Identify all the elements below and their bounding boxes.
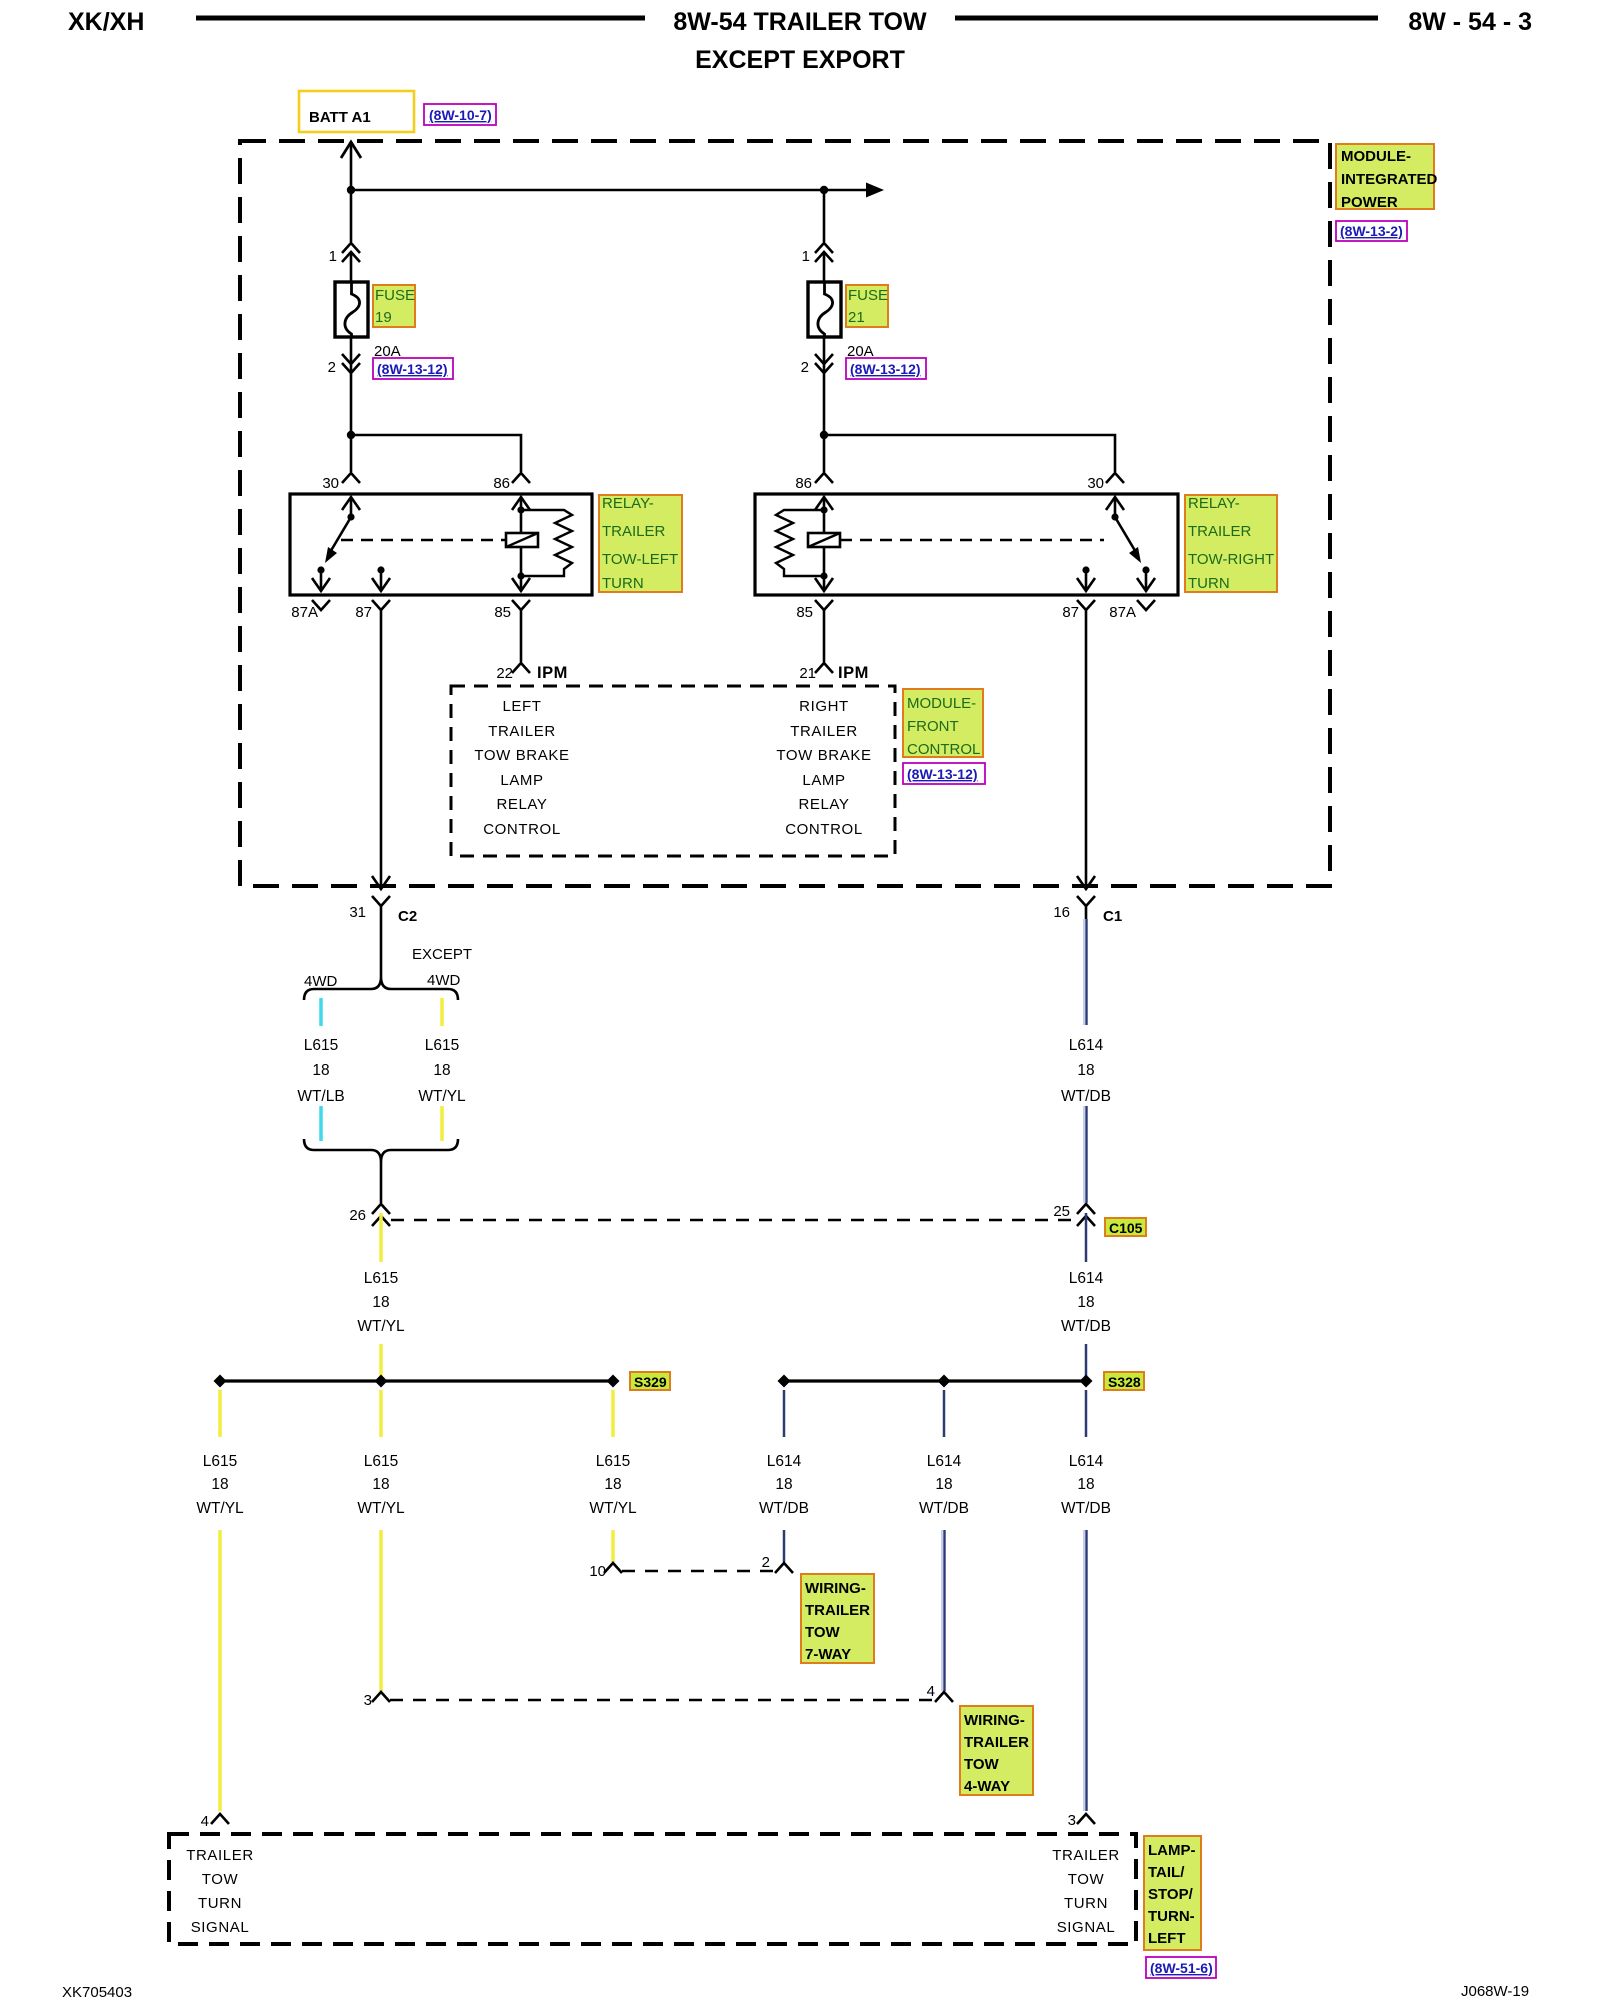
connector 7-way pin 2	[762, 1554, 793, 1573]
relay K1 coil	[506, 533, 538, 547]
svg-text:L615: L615	[304, 1037, 338, 1054]
svg-text:MODULE-: MODULE-	[1341, 148, 1411, 165]
svg-text:BATT A1: BATT A1	[309, 109, 371, 126]
connector 4-way pin 3	[364, 1692, 390, 1709]
svg-text:SIGNAL: SIGNAL	[191, 1919, 250, 1936]
S328 branch stub left	[783, 1390, 786, 1437]
connector pin 2 of fuse 21	[801, 337, 833, 376]
svg-text:LAMP: LAMP	[802, 772, 845, 789]
connector pin 2 of fuse 19	[328, 337, 360, 376]
svg-text:XK705403: XK705403	[62, 1984, 132, 2000]
connector 7-way pin 10	[589, 1563, 622, 1580]
svg-text:19: 19	[375, 309, 392, 326]
svg-text:WT/YL: WT/YL	[589, 1500, 637, 1517]
relay K2 pin 87A stub	[1137, 566, 1155, 591]
splice S328 junction right	[1080, 1375, 1093, 1388]
connector tail lamp pin 3	[1068, 1812, 1095, 1829]
link (8W-10-7)	[424, 104, 496, 125]
relay K1 switch contact arm	[325, 517, 351, 563]
dashed link pin 10 to pin 2	[622, 1570, 777, 1573]
relay K2 box	[755, 494, 1178, 595]
wire label L615 18 WT/YL branch left	[196, 1453, 244, 1517]
svg-text:18: 18	[935, 1476, 952, 1493]
svg-text:L615: L615	[364, 1270, 398, 1287]
svg-text:TRAILER: TRAILER	[964, 1734, 1029, 1751]
svg-text:87A: 87A	[1109, 604, 1136, 621]
label C105	[1105, 1218, 1146, 1236]
wire node C to relay K1 pin 86	[351, 435, 521, 472]
alternative merge brace	[304, 1139, 458, 1162]
svg-text:L614: L614	[767, 1453, 802, 1470]
svg-text:WT/DB: WT/DB	[1061, 1088, 1111, 1105]
connector turn signal pin 4	[201, 1813, 229, 1830]
svg-text:87: 87	[1062, 604, 1079, 621]
trailer tow turn signal text left	[186, 1847, 254, 1936]
svg-text:EXCEPT: EXCEPT	[412, 946, 472, 963]
connector C105 pin 25	[1053, 1203, 1095, 1226]
wire L614 to trailer tow 7-way pin 2	[783, 1530, 786, 1562]
battery feed box BATT A1	[299, 91, 414, 132]
svg-text:4WD: 4WD	[304, 973, 338, 990]
svg-text:FUSE: FUSE	[848, 287, 888, 304]
relay K1 coil feed line pins 86-85	[512, 497, 530, 591]
svg-text:3: 3	[364, 1692, 372, 1709]
wire merge to C105 pin 26	[380, 1162, 383, 1203]
wire L614 to splice S328	[1085, 1344, 1088, 1381]
connector relay K1 pin 86	[493, 473, 530, 492]
svg-text:L614: L614	[1069, 1037, 1104, 1054]
alternative split brace	[304, 977, 458, 1000]
wire label L615 18 WT/YL	[418, 1037, 466, 1105]
label RELAY-TRAILER TOW-RIGHT TURN	[1185, 495, 1277, 592]
connector relay K2 pin 87	[1062, 600, 1095, 621]
wire feed bus to right branch with arrow	[351, 183, 884, 198]
svg-text:C1: C1	[1103, 908, 1122, 925]
splice S329 junction right	[607, 1375, 620, 1388]
connector relay K2 pin 86	[795, 473, 833, 492]
svg-text:XK/XH: XK/XH	[68, 8, 144, 36]
svg-text:L614: L614	[927, 1453, 962, 1470]
wire node D to relay K2 pin 86	[823, 435, 826, 472]
svg-text:(8W-13-2): (8W-13-2)	[1340, 223, 1403, 239]
svg-text:MODULE-: MODULE-	[907, 695, 976, 712]
svg-text:1: 1	[329, 248, 337, 265]
svg-text:TOW-LEFT: TOW-LEFT	[602, 551, 678, 568]
link (8W-51-6)	[1146, 1957, 1216, 1978]
wire L614 WT/DB segment below C1	[1084, 919, 1087, 1025]
connector relay K2 pin 30	[1087, 473, 1124, 492]
wire L615 below C105	[379, 1213, 383, 1262]
svg-text:8W-54 TRAILER TOW: 8W-54 TRAILER TOW	[673, 8, 927, 36]
svg-text:2: 2	[328, 359, 336, 376]
svg-text:STOP/: STOP/	[1148, 1886, 1194, 1903]
wire L615 to turn signal lamp pin 4	[218, 1530, 222, 1811]
connector IPM pin 22	[496, 663, 568, 682]
svg-text:TOW BRAKE: TOW BRAKE	[776, 747, 871, 764]
svg-text:18: 18	[1077, 1062, 1094, 1079]
svg-text:TRAILER: TRAILER	[790, 723, 858, 740]
wire label L614 18 WT/DB branch mid	[919, 1453, 969, 1517]
svg-text:4: 4	[927, 1683, 935, 1700]
svg-text:S329: S329	[634, 1374, 667, 1390]
connector relay K1 pin 30	[322, 473, 360, 492]
svg-text:TRAILER: TRAILER	[488, 723, 556, 740]
wire K2 pin 87 down to C1	[1077, 610, 1095, 889]
connector relay K2 pin 85	[796, 600, 833, 621]
node D junction	[820, 431, 828, 439]
node C junction	[347, 431, 355, 439]
svg-text:WT/YL: WT/YL	[196, 1500, 244, 1517]
svg-text:L615: L615	[596, 1453, 630, 1470]
relay K2 armature dashed link	[840, 539, 1104, 541]
svg-text:RELAY-: RELAY-	[602, 495, 654, 512]
header rule left	[196, 16, 645, 21]
wire label L615 18 WT/YL branch right	[589, 1453, 637, 1517]
label EXCEPT 4WD	[412, 946, 472, 989]
svg-text:22: 22	[496, 665, 513, 682]
svg-text:POWER: POWER	[1341, 194, 1398, 211]
svg-text:TOW BRAKE: TOW BRAKE	[474, 747, 569, 764]
S329 branch stub left	[218, 1390, 222, 1437]
svg-text:RIGHT: RIGHT	[799, 698, 849, 715]
svg-text:FRONT: FRONT	[907, 718, 959, 735]
relay K2 switch contact arm	[1115, 517, 1141, 563]
svg-text:RELAY: RELAY	[496, 796, 547, 813]
relay K1 coil resistor	[521, 510, 572, 576]
svg-text:TAIL/: TAIL/	[1148, 1864, 1185, 1881]
wire node D to relay K2 pin 30	[824, 435, 1115, 472]
S328 branch stub mid	[943, 1390, 946, 1437]
svg-text:TOW: TOW	[202, 1871, 239, 1888]
relay K2 coil resistor	[776, 510, 824, 576]
svg-text:S328: S328	[1108, 1374, 1141, 1390]
S328 branch stub right	[1085, 1390, 1088, 1437]
wire battery A1 into module (arrow up)	[341, 142, 361, 242]
module-integrated power boundary (dashed box)	[240, 141, 1330, 886]
wire L615 WT/YL segment (except 4WD)	[440, 998, 444, 1026]
svg-text:FUSE: FUSE	[375, 287, 415, 304]
svg-text:TOW: TOW	[1068, 1871, 1105, 1888]
svg-text:18: 18	[604, 1476, 621, 1493]
svg-text:LAMP: LAMP	[500, 772, 543, 789]
svg-text:(8W-13-12): (8W-13-12)	[377, 361, 448, 377]
connector C105 pin 26	[349, 1204, 390, 1226]
svg-text:26: 26	[349, 1207, 366, 1224]
label FUSE 21	[846, 285, 888, 327]
wire label L614 18 WT/DB branch left	[759, 1453, 809, 1517]
svg-text:TOW-RIGHT: TOW-RIGHT	[1188, 551, 1274, 568]
splice S328 junction mid	[938, 1375, 951, 1388]
svg-text:85: 85	[494, 604, 511, 621]
svg-text:TOW: TOW	[805, 1624, 841, 1641]
wire K1 pin 87 down to C2	[372, 610, 390, 889]
wire K2 pin 85 to IPM pin 21	[823, 610, 826, 662]
relay K2 switch pivot junction	[1111, 513, 1118, 520]
svg-text:4-WAY: 4-WAY	[964, 1778, 1010, 1795]
svg-text:WT/DB: WT/DB	[919, 1500, 969, 1517]
splice S328 bus	[784, 1379, 1086, 1382]
svg-text:TRAILER: TRAILER	[602, 523, 666, 540]
connector pin 1 of fuse 21	[802, 243, 833, 282]
svg-text:C2: C2	[398, 908, 417, 925]
svg-text:2: 2	[801, 359, 809, 376]
svg-text:(8W-13-12): (8W-13-12)	[907, 766, 978, 782]
svg-text:WT/LB: WT/LB	[297, 1088, 344, 1105]
svg-text:TOW: TOW	[964, 1756, 1000, 1773]
link (8W-13-12) right	[846, 358, 926, 379]
wire L615 to trailer tow 7-way pin 10	[611, 1530, 615, 1562]
wire L615 to splice S329	[379, 1344, 383, 1381]
svg-text:21: 21	[799, 665, 816, 682]
link (8W-13-12) FCM	[903, 763, 985, 784]
svg-text:TRAILER: TRAILER	[805, 1602, 870, 1619]
svg-text:RELAY: RELAY	[798, 796, 849, 813]
svg-text:L615: L615	[425, 1037, 459, 1054]
svg-text:WT/DB: WT/DB	[1061, 1500, 1111, 1517]
svg-text:WT/YL: WT/YL	[357, 1500, 405, 1517]
wire L614 to tail lamp pin 3	[1084, 1530, 1087, 1811]
svg-text:TURN: TURN	[602, 575, 644, 592]
svg-text:IPM: IPM	[838, 664, 869, 682]
trailer tow turn signal text right	[1052, 1847, 1120, 1936]
label S329	[630, 1372, 670, 1390]
svg-text:LEFT: LEFT	[1148, 1930, 1186, 1947]
svg-text:30: 30	[322, 475, 339, 492]
svg-text:L614: L614	[1069, 1453, 1104, 1470]
svg-text:WT/DB: WT/DB	[759, 1500, 809, 1517]
fuse F19	[335, 282, 368, 337]
svg-text:J068W-19: J068W-19	[1461, 1983, 1529, 2000]
svg-text:L614: L614	[1069, 1270, 1104, 1287]
relay K2 coil	[808, 533, 840, 547]
svg-text:WT/DB: WT/DB	[1061, 1318, 1111, 1335]
label MODULE-FRONT CONTROL	[903, 689, 983, 758]
connector 4-way pin 4	[927, 1683, 953, 1702]
wire label L615 18 WT/YL mid	[357, 1270, 405, 1335]
svg-text:CONTROL: CONTROL	[907, 741, 980, 758]
svg-text:1: 1	[802, 248, 810, 265]
label LAMP-TAIL/STOP/TURN-LEFT	[1144, 1836, 1201, 1950]
wire L614 below C105	[1085, 1213, 1088, 1262]
fuse F21	[808, 282, 841, 337]
in-line connector C105 dashed line	[391, 1219, 1077, 1222]
relay K1 pin 30 entry arrow	[342, 497, 360, 517]
svg-text:WT/YL: WT/YL	[357, 1318, 405, 1335]
wire node C to relay K1 pin 30	[350, 435, 353, 472]
svg-text:TURN-: TURN-	[1148, 1908, 1195, 1925]
wire label L614 18 WT/DB branch right	[1061, 1453, 1111, 1517]
svg-text:18: 18	[312, 1062, 329, 1079]
relay K1 box	[290, 494, 592, 595]
svg-text:WIRING-: WIRING-	[805, 1580, 866, 1597]
svg-text:C105: C105	[1109, 1220, 1143, 1236]
link (8W-13-2)	[1336, 221, 1407, 241]
connector C1 pin 16	[1053, 896, 1122, 925]
wire L614 WT/DB segment to C105	[1084, 1106, 1087, 1203]
svg-text:(8W-51-6): (8W-51-6)	[1150, 1960, 1213, 1976]
svg-text:21: 21	[848, 309, 865, 326]
svg-text:18: 18	[372, 1476, 389, 1493]
svg-text:LEFT: LEFT	[502, 698, 541, 715]
svg-text:18: 18	[211, 1476, 228, 1493]
wire fuse 19 to node C	[350, 374, 353, 435]
svg-text:7-WAY: 7-WAY	[805, 1646, 851, 1663]
svg-text:18: 18	[372, 1294, 389, 1311]
svg-text:4: 4	[201, 1813, 209, 1830]
wire label L614 18 WT/DB mid	[1061, 1270, 1111, 1335]
svg-text:RELAY-: RELAY-	[1188, 495, 1240, 512]
svg-text:WT/YL: WT/YL	[418, 1088, 466, 1105]
svg-text:TRAILER: TRAILER	[186, 1847, 254, 1864]
svg-text:IPM: IPM	[537, 664, 568, 682]
wire L615 WT/LB segment (4WD)	[319, 998, 323, 1026]
node B junction	[820, 186, 828, 194]
relay K1 pin 87 stub	[372, 566, 390, 591]
svg-text:85: 85	[796, 604, 813, 621]
wire C2 to alternative split	[380, 919, 383, 977]
relay K1 switch pivot junction	[347, 513, 354, 520]
svg-text:SIGNAL: SIGNAL	[1057, 1919, 1116, 1936]
wire L615 WT/YL segment 2	[440, 1106, 444, 1141]
svg-text:(8W-10-7): (8W-10-7)	[429, 107, 492, 123]
svg-text:LAMP-: LAMP-	[1148, 1842, 1196, 1859]
svg-text:87A: 87A	[291, 604, 318, 621]
S329 branch stub right	[611, 1390, 615, 1437]
svg-text:TRAILER: TRAILER	[1052, 1847, 1120, 1864]
connector relay K1 pin 87	[355, 600, 390, 621]
relay K2 pin 87 stub	[1077, 566, 1095, 591]
relay K2 pin 30 entry arrow	[1106, 497, 1124, 517]
svg-text:TURN: TURN	[1188, 575, 1230, 592]
wire L614 to trailer tow 4-way pin 4	[942, 1530, 945, 1691]
svg-text:CONTROL: CONTROL	[483, 821, 561, 838]
FCM right relay control text	[776, 698, 871, 838]
trailer tow turn signal boundary (dashed box)	[169, 1834, 1136, 1944]
connector relay K1 pin 87A	[291, 600, 330, 621]
connector C2 pin 31	[349, 896, 417, 925]
svg-text:CONTROL: CONTROL	[785, 821, 863, 838]
wire L615 WT/LB segment 2	[319, 1106, 323, 1141]
label FUSE 19	[373, 285, 415, 327]
wire fuse 21 to node D	[823, 374, 826, 435]
connector relay K1 pin 85	[494, 600, 530, 621]
label RELAY-TRAILER TOW-LEFT TURN	[599, 495, 682, 592]
relay K2 coil feed line pins 86-85	[815, 497, 833, 591]
svg-text:TURN: TURN	[1064, 1895, 1108, 1912]
svg-text:L615: L615	[364, 1453, 398, 1470]
svg-text:18: 18	[1077, 1476, 1094, 1493]
splice S328 junction left	[778, 1375, 791, 1388]
splice S329 junction left	[214, 1375, 227, 1388]
svg-text:18: 18	[775, 1476, 792, 1493]
FCM left relay control text	[474, 698, 569, 838]
splice S329 bus	[220, 1379, 613, 1382]
front control module boundary (dashed box)	[451, 686, 895, 856]
svg-text:EXCEPT EXPORT: EXCEPT EXPORT	[695, 46, 905, 74]
svg-text:10: 10	[589, 1563, 606, 1580]
dashed link pin 3 to pin 4	[390, 1699, 936, 1702]
svg-text:INTEGRATED: INTEGRATED	[1341, 171, 1438, 188]
svg-text:18: 18	[1077, 1294, 1094, 1311]
svg-text:TRAILER: TRAILER	[1188, 523, 1252, 540]
svg-text:25: 25	[1053, 1203, 1070, 1220]
svg-text:86: 86	[493, 475, 510, 492]
wire label L614 18 WT/DB	[1061, 1037, 1111, 1105]
wire L615 to trailer tow 4-way pin 3	[379, 1530, 383, 1691]
svg-text:8W - 54 - 3: 8W - 54 - 3	[1408, 8, 1532, 36]
connector relay K2 pin 87A	[1109, 600, 1155, 621]
header rule right	[955, 16, 1378, 21]
svg-text:16: 16	[1053, 904, 1070, 921]
node A junction	[347, 186, 355, 194]
label S328	[1104, 1372, 1144, 1390]
label MODULE-INTEGRATED POWER	[1336, 144, 1438, 211]
svg-text:4WD: 4WD	[427, 972, 461, 989]
connector pin 1 of fuse 19	[329, 243, 360, 282]
svg-text:18: 18	[433, 1062, 450, 1079]
label WIRING-TRAILER TOW 7-WAY	[801, 1574, 874, 1663]
svg-text:(8W-13-12): (8W-13-12)	[850, 361, 921, 377]
S329 branch stub mid	[379, 1390, 383, 1437]
svg-text:L615: L615	[203, 1453, 237, 1470]
wire K1 pin 85 to IPM pin 22	[520, 610, 523, 662]
wire label L615 18 WT/YL branch mid	[357, 1453, 405, 1517]
link (8W-13-12) left	[373, 358, 453, 379]
relay K1 armature dashed link	[341, 539, 506, 541]
svg-text:3: 3	[1068, 1812, 1076, 1829]
wire label L615 18 WT/LB	[297, 1037, 344, 1105]
svg-text:WIRING-: WIRING-	[964, 1712, 1025, 1729]
svg-text:86: 86	[795, 475, 812, 492]
splice S329 junction mid	[375, 1375, 388, 1388]
relay K1 pin 87A stub	[312, 566, 330, 591]
svg-text:2: 2	[762, 1554, 770, 1571]
label WIRING-TRAILER TOW 4-WAY	[960, 1706, 1033, 1795]
svg-text:31: 31	[349, 904, 366, 921]
connector IPM pin 21	[799, 663, 869, 682]
wire node B down to fuse 21 connector	[823, 190, 826, 242]
svg-text:87: 87	[355, 604, 372, 621]
svg-text:TURN: TURN	[198, 1895, 242, 1912]
svg-text:30: 30	[1087, 475, 1104, 492]
